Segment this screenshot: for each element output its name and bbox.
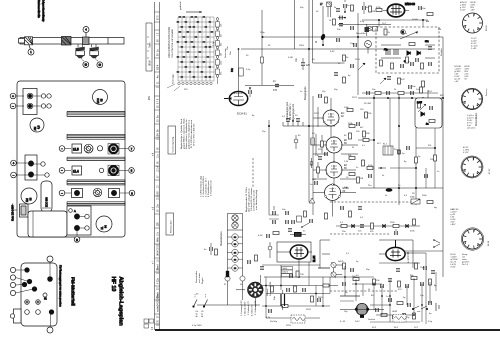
electrolytic double cap (274, 290, 285, 310)
svg-text:gedrückt: gedrückt (179, 1, 182, 10)
svg-text:22k: 22k (221, 43, 223, 46)
pointer 1 callout (28, 45, 34, 55)
main chassis rear panel (17, 81, 125, 237)
svg-text:5b: 5b (201, 316, 203, 318)
mid right components (362, 112, 434, 204)
sideways list text block 2 (200, 175, 213, 197)
svg-text:85V: 85V (440, 95, 444, 97)
trimmer 2 (76, 45, 89, 68)
dashed line y202 (330, 201, 418, 203)
resistor R5 on bus (261, 57, 264, 63)
svg-text:ECH 81: ECH 81 (237, 112, 247, 116)
dial shaft bar (19, 38, 125, 45)
wire vertical x309 (308, 0, 310, 202)
svg-text:265V: 265V (318, 297, 323, 299)
svg-text:12 14: 12 14 (158, 166, 160, 172)
EM80 tube circle (21, 188, 37, 204)
wires around tube column (310, 96, 358, 217)
top mid components row y126 (282, 115, 303, 149)
svg-text:215V: 215V (355, 59, 361, 61)
socket S4 (451, 208, 491, 269)
svg-text:ZF 10,7 MHz / 460 kHz: ZF 10,7 MHz / 460 kHz (194, 124, 196, 147)
text block left bottom (195, 271, 204, 284)
resistors near tube column (310, 123, 363, 186)
svg-text:10k: 10k (221, 24, 223, 27)
svg-text:−: − (61, 191, 63, 195)
wire vertical x323 (322, 6, 324, 45)
dashed IF box (376, 27, 439, 73)
wire vertical x443 right bus (442, 37, 444, 277)
electrolytic can (41, 181, 52, 212)
svg-text:Übertr: Übertr (283, 271, 289, 274)
svg-text:−: − (61, 147, 63, 151)
svg-text:EM 80: EM 80 (486, 26, 488, 31)
extra top-right components (334, 6, 433, 84)
capacitor C22 10n (296, 57, 311, 70)
svg-text:1M: 1M (360, 178, 363, 180)
dashed line y234 (330, 233, 390, 235)
bottom right cluster components (340, 239, 440, 322)
socket S1 (460, 2, 488, 50)
output terminal block (67, 206, 91, 242)
svg-text:21 22: 21 22 (158, 268, 160, 274)
sideways instruction text block 1 (180, 117, 196, 149)
svg-text:s 85V: s 85V (451, 224, 457, 226)
hatched cap (365, 24, 370, 36)
tube EL84 (96, 216, 112, 232)
AM demod rounded box right (415, 90, 442, 128)
svg-text:am Lautst.: am Lautst. (198, 272, 201, 283)
wire horizontal y49 (241, 48, 435, 50)
svg-text:2. Anode 250V: 2. Anode 250V (244, 301, 247, 316)
svg-text:Regler: Regler (201, 277, 204, 284)
small text cluster right of matrix (213, 41, 232, 55)
output transformer text stack (282, 267, 293, 277)
svg-text:Signal gegen Ch.: Signal gegen Ch. (293, 103, 295, 121)
svg-text:Ratiofilter: Ratiofilter (440, 48, 443, 56)
wire horizontal y188 (360, 187, 443, 189)
triangle mark (309, 198, 315, 204)
svg-text:−: − (61, 169, 63, 173)
svg-text:HF 10: HF 10 (110, 277, 116, 292)
source circle left of box (365, 41, 372, 54)
junction dots (262, 36, 445, 189)
notes text block right (287, 101, 295, 121)
extra labels mid-right (246, 7, 444, 209)
svg-text:5. Schirmg. 85: 5. Schirmg. 85 (254, 300, 257, 315)
svg-text:−: − (12, 104, 14, 108)
tube V4 (325, 184, 350, 201)
svg-text:1L5: 1L5 (73, 148, 79, 152)
hatched trimmer small left (365, 27, 367, 29)
svg-text:Wellenschalt.: Wellenschalt. (170, 220, 173, 233)
svg-text:Dr: Dr (385, 194, 388, 197)
fuse Si (315, 33, 326, 43)
svg-text:1M: 1M (221, 53, 223, 56)
wire vertical x294 (293, 0, 295, 49)
svg-text:FM-Mutterteil: FM-Mutterteil (71, 277, 76, 306)
wire vertical x241 tube feed (238, 49, 240, 91)
svg-text:1L4: 1L4 (73, 170, 79, 174)
components under box (387, 77, 425, 99)
pot row 1 (y=147) (59, 144, 134, 155)
drum 4 (83, 27, 90, 45)
capacitor C21 2n (273, 80, 279, 92)
svg-text:Taste: Taste (149, 42, 152, 48)
AM circle (30, 118, 44, 132)
cap+res left of ladder (204, 243, 218, 255)
svg-text:von unten: von unten (467, 127, 475, 130)
bold tube EABC80 top (383, 3, 416, 17)
arrow above matrix (186, 11, 202, 13)
dashed vertical x253 (252, 158, 254, 188)
component row y93 (362, 87, 438, 99)
extra mid components (319, 94, 362, 219)
svg-text:Klangregister: Klangregister (304, 86, 307, 100)
svg-text:DRUCKTASTEN VON VORN: DRUCKTASTEN VON VORN (168, 27, 171, 58)
svg-text:a. ECC 85: a. ECC 85 (407, 251, 410, 263)
svg-text:250V: 250V (299, 45, 305, 47)
ratio detector contents (400, 32, 418, 40)
FM key unit panel (10, 256, 57, 333)
svg-text:470: 470 (273, 89, 278, 92)
hatched drum left (25, 37, 33, 45)
svg-text:Voreinzeigerstlg.: Voreinzeigerstlg. (172, 136, 175, 153)
wire vertical x399 (398, 95, 400, 205)
svg-text:Tastenaggr.: Tastenaggr. (172, 73, 175, 84)
wire horizontal y24.6 (338, 24, 391, 26)
svg-text:15 16: 15 16 (158, 194, 160, 200)
extra tiny labels (192, 20, 441, 329)
terminal strip top-left (10, 89, 51, 115)
svg-text:2,2M: 2,2M (417, 102, 422, 104)
svg-text:29 30: 29 30 (158, 320, 160, 326)
socket S2 (455, 66, 489, 130)
extra mid-right wires (358, 128, 440, 188)
svg-text:EL 84: EL 84 (488, 241, 490, 246)
drum middle dark (62, 37, 72, 46)
wire vertical x262 (261, 10, 263, 85)
svg-text:0,1µ: 0,1µ (246, 69, 251, 71)
svg-text:Drehko: Drehko (368, 318, 376, 321)
svg-text:215V: 215V (352, 97, 357, 99)
svg-text:47k: 47k (221, 72, 223, 75)
terminal strip 2 (11, 155, 50, 180)
wire horizontal y17.6 (338, 17, 345, 19)
svg-text:EL 84: EL 84 (313, 255, 316, 262)
svg-text:+: + (13, 161, 15, 165)
wire vertical x269 (268, 120, 270, 215)
svg-text:5 s 85: 5 s 85 (471, 48, 476, 50)
svg-text:6,3V: 6,3V (330, 51, 335, 53)
bottom-right wiring mesh (318, 251, 443, 322)
wire horizontal y37 (263, 36, 444, 38)
svg-text:bei 220V Netz o.: bei 220V Netz o. (289, 103, 292, 120)
svg-text:ECC 808: ECC 808 (46, 197, 49, 207)
svg-text:0,1µ: 0,1µ (213, 41, 215, 46)
fuse holder left (14, 204, 28, 217)
svg-text:k 2,2V: k 2,2V (460, 10, 466, 12)
zigzag dashed box 2 (393, 315, 406, 323)
svg-text:f 6,3V: f 6,3V (451, 267, 457, 269)
svg-text:Fassung: Fassung (486, 89, 488, 96)
svg-text:100k: 100k (221, 61, 223, 65)
tube EC92 column (323, 109, 349, 200)
svg-text:Ratio-Elko: Ratio-Elko (356, 32, 366, 35)
svg-text:9 10: 9 10 (158, 135, 160, 140)
svg-text:Demodulator: Demodulator (475, 113, 478, 126)
svg-text:6 7 8: 6 7 8 (158, 98, 160, 104)
wire vertical x312.6 (312, 0, 314, 63)
af coupling chain y226 (336, 219, 420, 235)
svg-text:250V: 250V (306, 309, 311, 311)
svg-text:Kl. 1: Kl. 1 (383, 144, 388, 146)
wire horizontal y63 (313, 62, 345, 64)
tube V1 (323, 109, 345, 126)
trimmer 3 (90, 45, 103, 68)
note text rotated top-left (37, 0, 46, 23)
svg-text:−: − (13, 173, 15, 177)
svg-text:FM: FM (438, 29, 441, 31)
svg-text:4b: 4b (196, 316, 198, 318)
varicap circles left (331, 262, 343, 278)
svg-text:S2: S2 (196, 294, 198, 296)
ribbed band rows (67, 112, 125, 206)
svg-text:e f: e f (153, 261, 155, 264)
svg-text:+: + (12, 94, 14, 98)
svg-text:Netz 110-240V~: Netz 110-240V~ (12, 203, 15, 221)
svg-text:50+50µ: 50+50µ (270, 321, 278, 323)
svg-text:6...25: 6...25 (340, 321, 346, 323)
resistor R12 50k (231, 67, 243, 76)
svg-text:6,3V~: 6,3V~ (258, 235, 264, 237)
pot row 3 (y=193) (59, 188, 135, 197)
svg-text:1. Heizung 6,3V: 1. Heizung 6,3V (241, 300, 243, 316)
text columns mid (245, 187, 258, 212)
wire horizontal y98 (358, 97, 443, 99)
svg-text:1M: 1M (372, 11, 375, 13)
wire horizontal y85 (245, 85, 294, 87)
wire pair x328 (328, 6, 331, 17)
tube V3 (326, 161, 348, 178)
svg-text:0,1µ 250V: 0,1µ 250V (192, 325, 202, 327)
svg-text:Netzschalter: Netzschalter (195, 271, 198, 283)
svg-text:EC 92: EC 92 (489, 169, 491, 174)
svg-text:0,5M: 0,5M (288, 57, 293, 59)
tube ECH81 (224, 48, 248, 115)
wire vertical x416 (415, 128, 417, 205)
resistor boxes right of matrix (216, 17, 220, 84)
svg-text:Ratio: Ratio (402, 32, 408, 35)
boxed vertical labels (166, 126, 176, 235)
svg-text:Skalenlampen: Skalenlampen (221, 231, 223, 246)
svg-text:B: B (76, 238, 78, 242)
switch contacts bottom left (193, 294, 208, 319)
svg-text:125V: 125V (286, 325, 291, 327)
svg-text:225V: 225V (314, 113, 319, 115)
bottom center parts (267, 232, 329, 324)
tube V2 (326, 136, 348, 153)
top mid-left components near x345,y0-30 (329, 0, 354, 30)
misc labels scattered (246, 45, 434, 233)
bottom center mesh (262, 262, 338, 318)
svg-text:UKW: UKW (150, 60, 152, 66)
components between lamp ladder and EL84 (248, 255, 264, 269)
svg-text:osz.: osz. (417, 311, 421, 313)
diag arrow in AM box (418, 104, 426, 112)
switch contacts right (412, 303, 439, 311)
dark resistor block (226, 271, 229, 277)
svg-text:Abgleich-Lageplan: Abgleich-Lageplan (118, 277, 124, 327)
components bottom center (269, 206, 312, 231)
svg-text:18 20: 18 20 (158, 244, 160, 250)
dashed line y291 (330, 290, 398, 292)
svg-text:k 1,2V: k 1,2V (463, 152, 469, 154)
svg-text:AM: AM (426, 20, 429, 23)
capacitor near tube (249, 87, 251, 97)
svg-text:4. Gitter 0V: 4. Gitter 0V (251, 304, 254, 316)
svg-text:EABC 80: EABC 80 (405, 3, 416, 6)
top right small parts (337, 2, 391, 47)
svg-text:3. Kathode 7V: 3. Kathode 7V (247, 301, 250, 315)
wire vertical x358 (357, 13, 359, 95)
extra box contents (362, 19, 428, 63)
res under el84 (296, 271, 304, 277)
svg-text:Pin 1-9: Pin 1-9 (462, 264, 468, 266)
svg-text:6,8: 6,8 (38, 125, 41, 129)
svg-text:max. Ausschlag abgl.: max. Ausschlag abgl. (255, 189, 258, 210)
socket S3 (460, 147, 491, 179)
wire horizontal y126 (283, 125, 335, 127)
wire horizontal y277 (264, 276, 343, 278)
svg-text:A: A (74, 209, 76, 213)
UKW box tuner pot hatched (340, 303, 384, 323)
svg-text:5. Ratiofilter sek.: 5. Ratiofilter sek. (210, 179, 213, 196)
vertical x390 (389, 98, 391, 146)
svg-text:FM-Tastenaggregat von unten ge: FM-Tastenaggregat von unten gesehen (59, 265, 62, 307)
left small tube wires bottom (318, 240, 330, 268)
coil L7 (320, 2, 332, 7)
svg-text:TON CONTROL KEY BOARD: TON CONTROL KEY BOARD (171, 28, 174, 58)
wire vertical x374 (373, 95, 375, 188)
svg-text:87,5: 87,5 (158, 15, 160, 20)
svg-text:Netzteil: Netzteil (266, 288, 269, 296)
tube ECC85 top right (93, 90, 108, 105)
wire horizontal y305 (197, 304, 260, 306)
pot row 2 (y=169) (59, 165, 134, 176)
svg-text:ZF 460: ZF 460 (364, 103, 372, 105)
svg-text:Spannungen gem.: Spannungen gem. (287, 101, 289, 120)
power transformer (28, 211, 67, 237)
bottom border line (144, 319, 500, 330)
